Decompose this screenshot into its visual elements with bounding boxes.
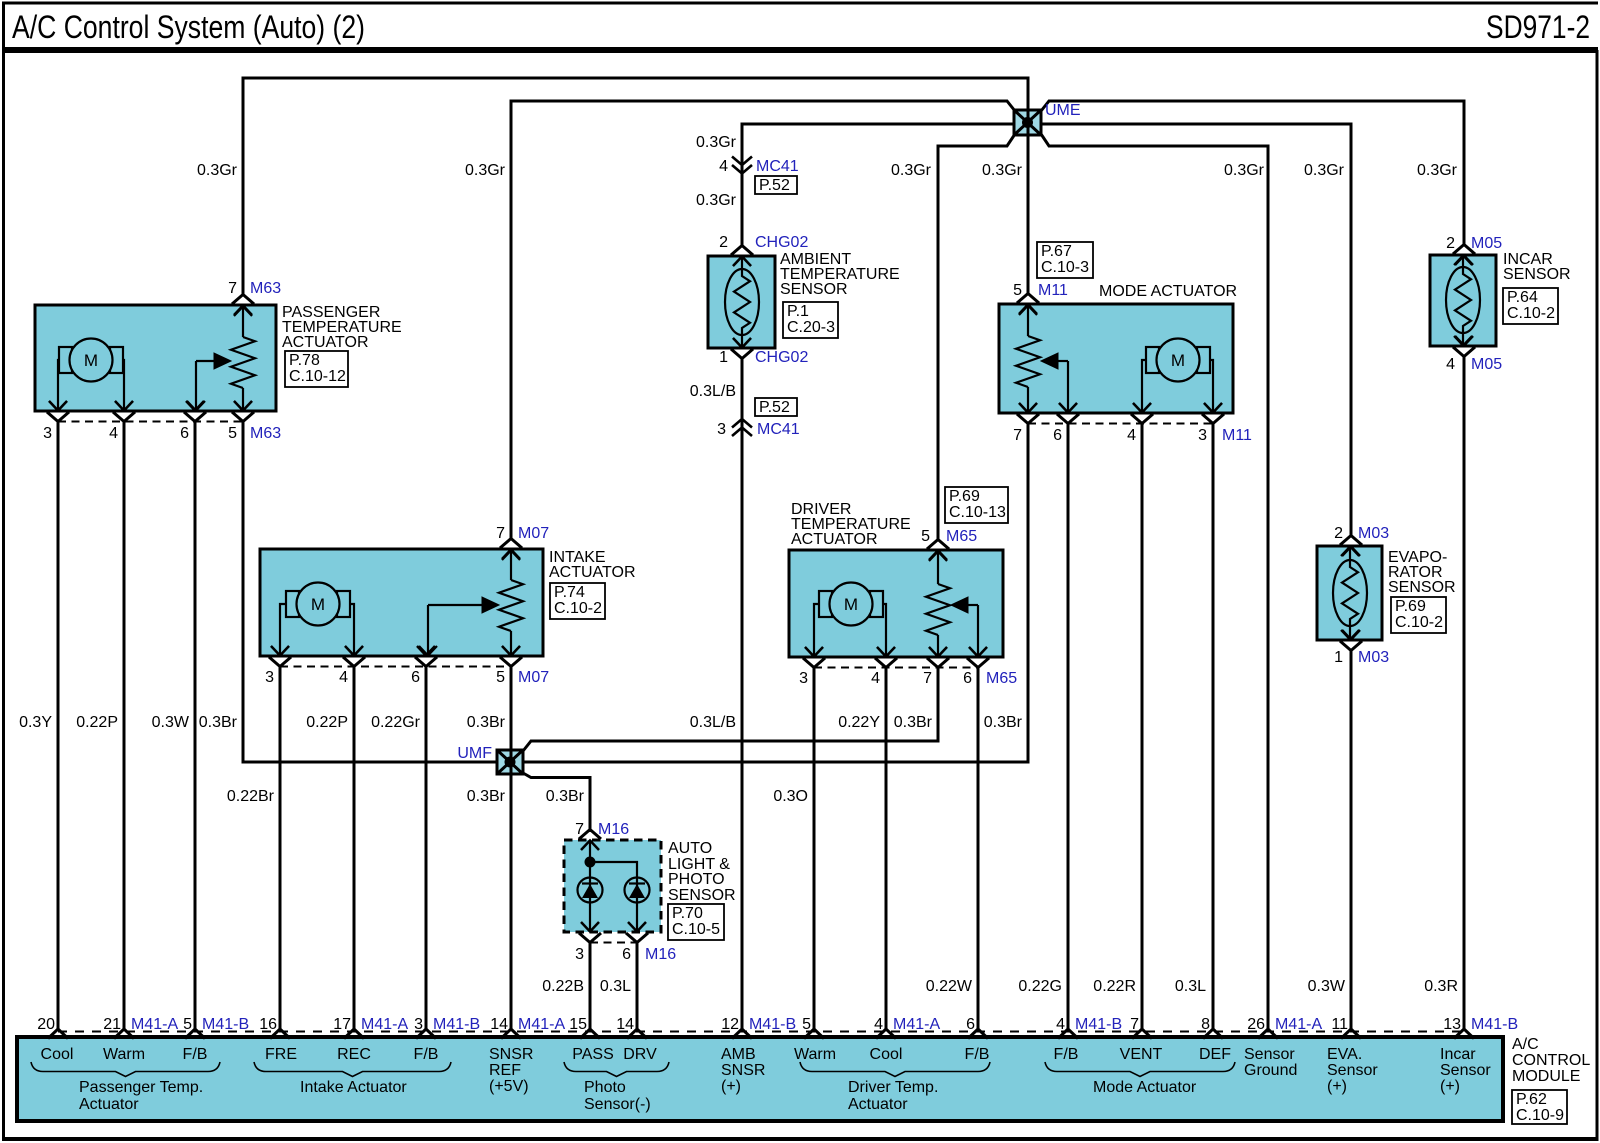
svg-text:VENT: VENT bbox=[1120, 1046, 1163, 1063]
wire 0.22B photo sensor M16-3 down to module pin 15 PASS bbox=[589, 942, 592, 1030]
evaporator sensor ref P.69 C.10-2 bbox=[1391, 597, 1446, 633]
svg-text:0.22P: 0.22P bbox=[76, 714, 118, 731]
svg-text:7: 7 bbox=[228, 280, 237, 297]
svg-text:M41-A: M41-A bbox=[893, 1016, 940, 1033]
svg-text:SNSR: SNSR bbox=[489, 1046, 533, 1063]
svg-text:2: 2 bbox=[1334, 525, 1343, 542]
svg-text:5: 5 bbox=[496, 669, 505, 686]
module brace intake actuator group bbox=[254, 1062, 451, 1077]
driver temp actuator feedback resistor bbox=[926, 551, 950, 657]
module pin 21 chevron at x=124 bbox=[114, 1029, 134, 1039]
mode actuator wiper arrow bbox=[1041, 353, 1077, 413]
svg-text:P.1: P.1 bbox=[787, 303, 809, 320]
module brace mode actuator group bbox=[1045, 1062, 1235, 1077]
svg-text:0.3Gr: 0.3Gr bbox=[1304, 162, 1345, 179]
svg-text:26: 26 bbox=[1247, 1016, 1265, 1033]
svg-text:M41-A: M41-A bbox=[1275, 1016, 1322, 1033]
svg-text:3: 3 bbox=[799, 670, 808, 687]
title separator line bbox=[2, 47, 1598, 53]
svg-text:16: 16 bbox=[259, 1016, 277, 1033]
svg-text:3: 3 bbox=[414, 1016, 423, 1033]
wire 0.22G mode M11-6 down to module pin 4 F/B bbox=[1067, 423, 1070, 1030]
photo sensor junction dot bbox=[585, 857, 596, 868]
svg-text:PASS: PASS bbox=[572, 1046, 614, 1063]
svg-text:P.74: P.74 bbox=[554, 584, 585, 601]
svg-text:0.3Gr: 0.3Gr bbox=[696, 192, 737, 209]
svg-text:0.3W: 0.3W bbox=[152, 714, 190, 731]
svg-text:DRV: DRV bbox=[623, 1046, 657, 1063]
svg-text:0.3O: 0.3O bbox=[773, 788, 808, 805]
svg-text:7: 7 bbox=[496, 525, 505, 542]
svg-text:P.69: P.69 bbox=[949, 488, 980, 505]
module pin 13 chevron at x=1464 bbox=[1454, 1029, 1474, 1039]
module pin 20 chevron at x=58 bbox=[48, 1029, 68, 1039]
svg-text:M65: M65 bbox=[986, 670, 1017, 687]
driver temp actuator motor M bbox=[805, 583, 895, 657]
svg-text:Actuator: Actuator bbox=[848, 1096, 908, 1113]
svg-text:M: M bbox=[1171, 351, 1185, 370]
svg-text:F/B: F/B bbox=[414, 1046, 439, 1063]
svg-text:A/C Control System (Auto) (2): A/C Control System (Auto) (2) bbox=[12, 9, 365, 45]
wire 0.3Gr UME lower-right down to module pin 26 sensor ground bbox=[1041, 134, 1268, 1030]
wire 0.3Br intake M07-5 down through UMF to module pin 14 SNSR REF bbox=[510, 666, 513, 1030]
svg-text:5: 5 bbox=[228, 425, 237, 442]
connector M63 pin 3 chevron bbox=[49, 401, 67, 411]
svg-text:M16: M16 bbox=[645, 946, 676, 963]
connector M07 pin 7 chevrons bbox=[500, 539, 522, 560]
svg-text:SENSOR: SENSOR bbox=[780, 281, 848, 298]
svg-text:M07: M07 bbox=[518, 525, 549, 542]
ambient sensor thermistor bbox=[725, 256, 759, 348]
svg-text:0.3W: 0.3W bbox=[1308, 978, 1346, 995]
module pin 11 chevron at x=1351 bbox=[1341, 1029, 1361, 1039]
connector M11 pin 3 chevron bbox=[1204, 403, 1222, 413]
svg-text:13: 13 bbox=[1443, 1016, 1461, 1033]
inline connector MC41 bottom ref P.52 bbox=[755, 398, 797, 416]
connector M65 pin 7 chevron bbox=[929, 647, 947, 657]
svg-text:0.3L: 0.3L bbox=[1175, 978, 1206, 995]
svg-text:SENSOR: SENSOR bbox=[668, 887, 736, 904]
svg-text:M11: M11 bbox=[1222, 427, 1252, 444]
svg-text:4: 4 bbox=[719, 158, 728, 175]
a/c control module box bbox=[17, 1037, 1503, 1121]
svg-text:0.22Br: 0.22Br bbox=[227, 788, 275, 805]
module pin 12 chevron at x=742 bbox=[732, 1029, 752, 1039]
wire 0.3Gr UME upper-right to incar sensor M05-2 bbox=[1041, 101, 1464, 246]
mode actuator motor M bbox=[1133, 339, 1222, 413]
wire 0.3Gr UME bottom down to mode actuator M11-5 bbox=[1027, 134, 1030, 295]
svg-text:ACTUATOR: ACTUATOR bbox=[282, 334, 369, 351]
wire 0.3W evaporator sensor M03-1 down to module pin 11 bbox=[1350, 650, 1353, 1030]
svg-text:14: 14 bbox=[616, 1016, 634, 1033]
module pin 5 chevron at x=814 bbox=[804, 1029, 824, 1039]
svg-text:4: 4 bbox=[1446, 356, 1455, 373]
svg-text:C.10-9: C.10-9 bbox=[1516, 1107, 1564, 1124]
svg-text:Cool: Cool bbox=[870, 1046, 903, 1063]
svg-text:0.22Gr: 0.22Gr bbox=[371, 714, 421, 731]
photo sensor right photodiode bbox=[625, 878, 650, 903]
module pin 17 chevron at x=354 bbox=[344, 1029, 364, 1039]
svg-text:0.3Gr: 0.3Gr bbox=[891, 162, 932, 179]
svg-text:5: 5 bbox=[802, 1016, 811, 1033]
svg-text:20: 20 bbox=[37, 1016, 55, 1033]
svg-text:A/C: A/C bbox=[1512, 1036, 1539, 1053]
svg-text:REC: REC bbox=[337, 1046, 371, 1063]
svg-text:6: 6 bbox=[1053, 427, 1062, 444]
svg-text:DEF: DEF bbox=[1199, 1046, 1231, 1063]
inline connector MC41 pin 4 chevrons bbox=[732, 157, 752, 174]
svg-text:0.22G: 0.22G bbox=[1018, 978, 1062, 995]
svg-text:0.3Br: 0.3Br bbox=[546, 788, 585, 805]
svg-text:4: 4 bbox=[874, 1016, 883, 1033]
connector CHG02 pin 1 chevrons bbox=[731, 338, 753, 359]
svg-text:UME: UME bbox=[1045, 102, 1081, 119]
inline connector MC41 top ref P.52 bbox=[755, 176, 797, 194]
module pin 15 chevron at x=590 bbox=[580, 1029, 600, 1039]
module pin 8 chevron at x=1213 bbox=[1203, 1029, 1223, 1039]
wire 0.22Gr intake M07-6 down to module pin 3 bbox=[425, 666, 428, 1030]
module pin 14 chevron at x=511 bbox=[501, 1029, 521, 1039]
connector M03 pin 1 chevrons bbox=[1340, 630, 1362, 651]
svg-text:7: 7 bbox=[923, 670, 932, 687]
wire 0.22P intake M07-4 down to module pin 17 bbox=[353, 666, 356, 1030]
wire 0.3Gr UME right to evaporator sensor M03-2 bbox=[1041, 124, 1351, 537]
connector M07 pin 6 chevron bbox=[417, 646, 435, 656]
connector M16 bottom dashed line bbox=[590, 942, 637, 944]
svg-text:M65: M65 bbox=[946, 528, 977, 545]
module brace driver temp actuator group bbox=[800, 1062, 990, 1077]
module pin 4 chevron at x=1068 bbox=[1058, 1029, 1078, 1039]
wire 0.22W driver temp M65-6 down to module pin 6 F/B bbox=[977, 667, 980, 1030]
svg-text:CHG02: CHG02 bbox=[755, 234, 808, 251]
intake actuator feedback resistor bbox=[499, 550, 523, 656]
svg-text:Warm: Warm bbox=[794, 1046, 836, 1063]
svg-text:11: 11 bbox=[1331, 1016, 1348, 1033]
svg-text:C.20-3: C.20-3 bbox=[787, 319, 835, 336]
svg-text:3: 3 bbox=[717, 421, 726, 438]
connector M63 bottom dashed line bbox=[58, 421, 243, 423]
svg-text:AUTO: AUTO bbox=[668, 840, 712, 857]
wire 0.3L/B ambient sensor CHG02-1 down through MC41-3 to module pin 12 bbox=[741, 357, 744, 1030]
svg-text:21: 21 bbox=[103, 1016, 121, 1033]
svg-text:UMF: UMF bbox=[457, 745, 492, 762]
svg-text:Mode Actuator: Mode Actuator bbox=[1093, 1079, 1197, 1096]
svg-text:0.3Y: 0.3Y bbox=[19, 714, 52, 731]
svg-text:0.3Br: 0.3Br bbox=[199, 714, 238, 731]
connector M63 pin 6 chevron bbox=[186, 401, 204, 411]
passenger temperature actuator box M63 bbox=[35, 305, 276, 411]
wire 0.22Y driver temp M65-4 down to module pin 4 Cool bbox=[885, 667, 888, 1030]
svg-text:0.3Br: 0.3Br bbox=[467, 788, 506, 805]
svg-text:M05: M05 bbox=[1471, 356, 1502, 373]
svg-text:Sensor(-): Sensor(-) bbox=[584, 1096, 651, 1113]
svg-text:F/B: F/B bbox=[183, 1046, 208, 1063]
svg-text:M41-A: M41-A bbox=[361, 1016, 408, 1033]
svg-text:(+): (+) bbox=[721, 1078, 741, 1095]
svg-text:4: 4 bbox=[109, 425, 118, 442]
svg-text:8: 8 bbox=[1201, 1016, 1210, 1033]
svg-text:M11: M11 bbox=[1038, 282, 1068, 299]
svg-text:0.3Gr: 0.3Gr bbox=[1224, 162, 1265, 179]
wire 0.3L mode M11-3 down to module pin 8 DEF bbox=[1212, 423, 1215, 1030]
svg-text:0.3Gr: 0.3Gr bbox=[1417, 162, 1458, 179]
svg-text:M07: M07 bbox=[518, 669, 549, 686]
svg-text:6: 6 bbox=[966, 1016, 975, 1033]
svg-text:0.3L: 0.3L bbox=[600, 978, 631, 995]
svg-text:6: 6 bbox=[963, 670, 972, 687]
svg-text:C.10-13: C.10-13 bbox=[949, 504, 1006, 521]
connector M11 pin 7 chevron bbox=[1019, 403, 1037, 413]
svg-text:EVA.: EVA. bbox=[1327, 1046, 1362, 1063]
svg-text:(+): (+) bbox=[1440, 1078, 1460, 1095]
svg-text:7: 7 bbox=[1013, 427, 1022, 444]
connector M11 pin 5 chevrons bbox=[1017, 294, 1039, 315]
svg-text:6: 6 bbox=[411, 669, 420, 686]
passenger temp actuator ref P.78 C.10-12 bbox=[285, 351, 348, 387]
svg-text:ACTUATOR: ACTUATOR bbox=[549, 564, 636, 581]
evaporator sensor thermistor bbox=[1333, 546, 1367, 640]
svg-text:Sensor: Sensor bbox=[1440, 1062, 1491, 1079]
svg-text:M: M bbox=[311, 595, 325, 614]
intake actuator ref P.74 C.10-2 bbox=[550, 583, 605, 619]
module pin 4 chevron at x=886 bbox=[876, 1029, 896, 1039]
module pin 6 chevron at x=978 bbox=[968, 1029, 988, 1039]
svg-text:0.22W: 0.22W bbox=[926, 978, 973, 995]
wire 0.3Br driver temp M65-7 down and left to UMF upper-right bbox=[523, 667, 938, 751]
svg-text:Cool: Cool bbox=[41, 1046, 74, 1063]
connector M65 pin 3 chevron bbox=[805, 647, 823, 657]
svg-text:CONTROL: CONTROL bbox=[1512, 1052, 1590, 1069]
svg-text:SNSR: SNSR bbox=[721, 1062, 765, 1079]
module brace photo sensor group bbox=[564, 1062, 669, 1077]
module pin 26 chevron at x=1268 bbox=[1258, 1029, 1278, 1039]
svg-text:P.64: P.64 bbox=[1507, 289, 1538, 306]
svg-text:F/B: F/B bbox=[1054, 1046, 1079, 1063]
svg-text:0.3R: 0.3R bbox=[1424, 978, 1458, 995]
wire 0.3Br UMF lower-right to photo sensor M16-7 bbox=[523, 773, 590, 832]
svg-text:M05: M05 bbox=[1471, 235, 1502, 252]
connector M07 pin 4 chevron bbox=[345, 646, 363, 656]
photo sensor left photodiode bbox=[578, 878, 603, 903]
inline connector MC41 pin 3 chevrons bbox=[732, 419, 752, 436]
wire 0.3Br mode actuator M11-7 down and left to UMF right bbox=[524, 423, 1028, 762]
module connector dashed line bbox=[58, 1031, 1464, 1033]
svg-text:6: 6 bbox=[622, 946, 631, 963]
connector M16 pin 3 chevron bbox=[581, 922, 599, 932]
wire 0.3Gr MC41-4 up and right to UME left bbox=[742, 124, 1015, 247]
svg-text:SENSOR: SENSOR bbox=[1388, 579, 1456, 596]
passenger temp actuator wiper arrow bbox=[187, 353, 231, 411]
svg-text:Intake Actuator: Intake Actuator bbox=[300, 1079, 407, 1096]
connector M11 pin 4 chevron bbox=[1133, 403, 1151, 413]
svg-text:17: 17 bbox=[333, 1016, 351, 1033]
svg-text:M41-B: M41-B bbox=[1075, 1016, 1122, 1033]
svg-text:P.62: P.62 bbox=[1516, 1091, 1547, 1108]
svg-text:REF: REF bbox=[489, 1062, 521, 1079]
module pin 14 chevron at x=637 bbox=[627, 1029, 647, 1039]
svg-text:P.78: P.78 bbox=[289, 352, 320, 369]
svg-text:7: 7 bbox=[1130, 1016, 1139, 1033]
svg-text:Photo: Photo bbox=[584, 1079, 626, 1096]
svg-text:0.3Br: 0.3Br bbox=[894, 714, 933, 731]
svg-text:3: 3 bbox=[575, 946, 584, 963]
connector M16 pin 6 chevron bbox=[628, 922, 646, 932]
svg-text:P.52: P.52 bbox=[759, 399, 790, 416]
svg-text:4: 4 bbox=[339, 669, 348, 686]
junction UMF joint connector bbox=[497, 750, 523, 774]
wire 0.3W passenger M63-6 down to module pin 5 bbox=[194, 421, 197, 1030]
connector M07 pin 5 chevron bbox=[502, 646, 520, 656]
svg-text:P.67: P.67 bbox=[1041, 243, 1072, 260]
svg-text:3: 3 bbox=[1198, 427, 1207, 444]
svg-text:M41-B: M41-B bbox=[202, 1016, 249, 1033]
wire 0.3Gr intake M07-7 up to UME upper-left bbox=[511, 101, 1015, 540]
svg-text:6: 6 bbox=[180, 425, 189, 442]
svg-text:MODULE: MODULE bbox=[1512, 1068, 1580, 1085]
intake actuator motor M bbox=[271, 583, 363, 656]
svg-text:4: 4 bbox=[1056, 1016, 1065, 1033]
wire 0.3Gr passenger M63-7 up to UME top bbox=[243, 78, 1028, 296]
connector M05 pin 4 chevrons bbox=[1453, 336, 1475, 357]
intake actuator box M07 bbox=[260, 549, 543, 656]
svg-text:MC41: MC41 bbox=[756, 158, 799, 175]
svg-text:P.69: P.69 bbox=[1395, 598, 1426, 615]
ambient sensor ref P.1 C.20-3 bbox=[783, 302, 838, 338]
intake actuator wiper arrow bbox=[419, 597, 499, 656]
svg-text:0.22R: 0.22R bbox=[1093, 978, 1136, 995]
wire 0.22P passenger M63-4 down to module pin 21 bbox=[123, 421, 126, 1030]
incar sensor ref P.64 C.10-2 bbox=[1503, 288, 1558, 324]
svg-text:Sensor: Sensor bbox=[1244, 1046, 1295, 1063]
wire 0.22Br intake M07-3 down to module pin 16 bbox=[279, 666, 282, 1030]
svg-text:M63: M63 bbox=[250, 425, 281, 442]
svg-text:Passenger Temp.: Passenger Temp. bbox=[79, 1079, 203, 1096]
svg-text:14: 14 bbox=[490, 1016, 508, 1033]
connector M11 bottom dashed line bbox=[1028, 423, 1213, 425]
photo sensor internal wiring bbox=[590, 841, 637, 931]
wire 0.3L photo sensor M16-6 down to module pin 14 DRV bbox=[636, 942, 639, 1030]
wire 0.3O driver temp M65-3 down to module pin 5 Warm bbox=[813, 667, 816, 1030]
svg-text:M03: M03 bbox=[1358, 525, 1389, 542]
svg-text:M: M bbox=[84, 351, 98, 370]
svg-text:(+): (+) bbox=[1327, 1078, 1347, 1095]
svg-text:15: 15 bbox=[569, 1016, 587, 1033]
svg-text:0.3Gr: 0.3Gr bbox=[982, 162, 1023, 179]
svg-text:M03: M03 bbox=[1358, 649, 1389, 666]
svg-text:C.10-5: C.10-5 bbox=[672, 921, 720, 938]
svg-text:MODE ACTUATOR: MODE ACTUATOR bbox=[1099, 283, 1237, 300]
module brace passenger temp actuator group bbox=[31, 1062, 220, 1077]
svg-text:Ground: Ground bbox=[1244, 1062, 1297, 1079]
passenger temp actuator motor M bbox=[49, 339, 133, 411]
svg-text:CHG02: CHG02 bbox=[755, 349, 808, 366]
svg-text:M: M bbox=[844, 595, 858, 614]
connector M07 bottom dashed line bbox=[280, 666, 511, 668]
svg-text:M41-A: M41-A bbox=[131, 1016, 178, 1033]
ambient temperature sensor box CHG02 bbox=[708, 256, 775, 348]
svg-text:5: 5 bbox=[921, 528, 930, 545]
svg-text:Warm: Warm bbox=[103, 1046, 145, 1063]
svg-text:4: 4 bbox=[871, 670, 880, 687]
svg-text:0.3Gr: 0.3Gr bbox=[465, 162, 506, 179]
svg-text:5: 5 bbox=[183, 1016, 192, 1033]
module pin 16 chevron at x=280 bbox=[270, 1029, 290, 1039]
svg-text:Incar: Incar bbox=[1440, 1046, 1476, 1063]
connector M63 pin 5 chevron bbox=[234, 401, 252, 411]
connector M05 pin 2 chevrons bbox=[1453, 245, 1475, 266]
svg-text:0.3Gr: 0.3Gr bbox=[696, 134, 737, 151]
svg-text:0.3L/B: 0.3L/B bbox=[690, 714, 736, 731]
svg-text:AMB: AMB bbox=[721, 1046, 756, 1063]
incar sensor box M05 bbox=[1430, 255, 1496, 346]
svg-text:M41-A: M41-A bbox=[518, 1016, 565, 1033]
svg-text:C.10-3: C.10-3 bbox=[1041, 259, 1089, 276]
photo sensor ref P.70 C.10-5 bbox=[668, 904, 724, 940]
svg-text:Actuator: Actuator bbox=[79, 1096, 139, 1113]
svg-text:M16: M16 bbox=[598, 821, 629, 838]
svg-text:FRE: FRE bbox=[265, 1046, 297, 1063]
connector M16 pin 7 chevrons bbox=[579, 830, 601, 851]
svg-text:C.10-2: C.10-2 bbox=[1507, 305, 1555, 322]
evaporator sensor box M03 bbox=[1317, 546, 1382, 640]
svg-text:0.22P: 0.22P bbox=[306, 714, 348, 731]
driver temp actuator ref P.69 C.10-13 bbox=[945, 487, 1008, 523]
wire 0.22R mode M11-4 down to module pin 7 VENT bbox=[1141, 423, 1144, 1030]
wire 0.3Y passenger M63-3 down to module pin 20 bbox=[57, 421, 60, 1030]
svg-text:1: 1 bbox=[719, 349, 728, 366]
svg-text:0.22B: 0.22B bbox=[542, 978, 584, 995]
svg-text:ACTUATOR: ACTUATOR bbox=[791, 531, 878, 548]
svg-text:MC41: MC41 bbox=[757, 421, 800, 438]
svg-text:C.10-12: C.10-12 bbox=[289, 368, 346, 385]
svg-text:0.3L/B: 0.3L/B bbox=[690, 383, 736, 400]
mode actuator ref P.67 C.10-3 bbox=[1037, 242, 1093, 278]
incar sensor thermistor bbox=[1446, 255, 1480, 346]
svg-text:0.3Gr: 0.3Gr bbox=[197, 162, 238, 179]
svg-text:SENSOR: SENSOR bbox=[1503, 266, 1571, 283]
module pin 5 chevron at x=195 bbox=[185, 1029, 205, 1039]
svg-text:M41-B: M41-B bbox=[1471, 1016, 1518, 1033]
passenger temp actuator feedback resistor bbox=[231, 306, 255, 411]
connector M63 pin 7 chevrons bbox=[232, 295, 254, 316]
svg-text:SD971-2: SD971-2 bbox=[1486, 9, 1590, 45]
connector M65 pin 4 chevron bbox=[877, 647, 895, 657]
svg-text:2: 2 bbox=[1446, 235, 1455, 252]
svg-text:2: 2 bbox=[719, 234, 728, 251]
svg-text:M63: M63 bbox=[250, 280, 281, 297]
mode actuator feedback resistor bbox=[1016, 305, 1040, 413]
connector M65 pin 5 chevrons bbox=[927, 540, 949, 561]
connector M65 pin 6 chevron bbox=[969, 647, 987, 657]
svg-text:(+5V): (+5V) bbox=[489, 1078, 529, 1095]
wire 0.3Br passenger M63-5 down and right to UMF left bbox=[243, 421, 498, 762]
wire 0.3Gr UME lower-left to driver temp actuator M65-5 bbox=[938, 134, 1015, 541]
svg-text:5: 5 bbox=[1013, 282, 1022, 299]
svg-text:3: 3 bbox=[265, 669, 274, 686]
module pin 3 chevron at x=426 bbox=[416, 1029, 436, 1039]
module ref P.62 C.10-9 bbox=[1512, 1090, 1567, 1124]
connector M11 pin 6 chevron bbox=[1059, 403, 1077, 413]
svg-text:F/B: F/B bbox=[965, 1046, 990, 1063]
svg-text:P.52: P.52 bbox=[759, 177, 790, 194]
svg-text:0.22Y: 0.22Y bbox=[838, 714, 880, 731]
svg-text:7: 7 bbox=[575, 821, 584, 838]
svg-text:M41-B: M41-B bbox=[433, 1016, 480, 1033]
svg-text:C.10-2: C.10-2 bbox=[554, 600, 602, 617]
svg-text:4: 4 bbox=[1127, 427, 1136, 444]
auto light and photo sensor box M16 bbox=[564, 840, 661, 932]
svg-text:C.10-2: C.10-2 bbox=[1395, 614, 1443, 631]
